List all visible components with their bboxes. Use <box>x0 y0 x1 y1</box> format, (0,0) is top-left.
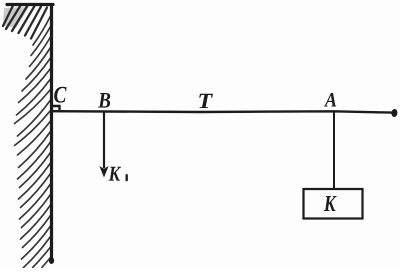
node B label <box>98 93 110 108</box>
wall hatching <box>3 6 47 39</box>
wall vertical face <box>49 4 54 264</box>
hanger rod at A <box>333 111 335 189</box>
tension T label <box>199 94 213 108</box>
beam (rod T) <box>51 111 392 112</box>
weight label K <box>324 196 337 211</box>
wall top cap <box>7 3 53 6</box>
wall shading patch (light gray) <box>3 7 29 28</box>
beam right end cap <box>391 109 398 118</box>
force arrow K1 at B <box>99 112 108 178</box>
wall hatching lower strokes <box>15 16 51 268</box>
force label K1 <box>109 167 127 181</box>
node A label <box>324 93 336 107</box>
node C label <box>54 87 66 103</box>
weight box K <box>304 189 363 219</box>
bracket at C (wall attachment) <box>52 106 60 112</box>
